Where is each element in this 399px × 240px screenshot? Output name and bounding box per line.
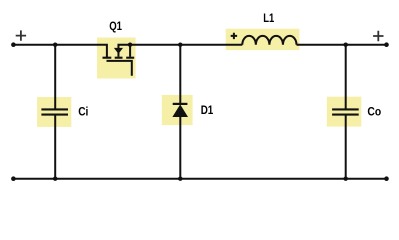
svg-text:Ci: Ci bbox=[78, 105, 88, 119]
L1 polarity plus bbox=[231, 33, 237, 39]
junction Ci bottom bbox=[53, 177, 57, 181]
svg-text:D1: D1 bbox=[201, 103, 214, 117]
capacitor Co bbox=[332, 45, 381, 179]
Q1 drain lead bbox=[129, 45, 131, 57]
D1 top lead bbox=[179, 45, 181, 104]
output plus polarity mark bbox=[373, 31, 383, 41]
junction D1 top bbox=[178, 43, 182, 47]
diode D1 highlight bbox=[162, 95, 193, 125]
wire bottom rail bbox=[13, 178, 386, 180]
junction Co top bbox=[344, 43, 348, 47]
D1 bottom lead bbox=[179, 117, 181, 179]
Co bottom lead bbox=[345, 115, 347, 178]
terminal dot input top bbox=[11, 42, 16, 47]
junction Ci top bbox=[53, 43, 57, 47]
svg-text:Q1: Q1 bbox=[109, 19, 122, 33]
diode D1 bbox=[172, 45, 213, 179]
wire top rail from Q1 drain junction to L1 coil bbox=[130, 44, 242, 46]
svg-text:Co: Co bbox=[367, 105, 381, 119]
D1 triangle bbox=[172, 104, 188, 117]
junction D1 bottom bbox=[178, 177, 182, 181]
Ci top lead bbox=[54, 45, 56, 109]
wire top rail from L1 coil to output terminal bbox=[297, 44, 387, 46]
D1 cathode bar bbox=[173, 103, 188, 105]
capacitor Ci highlight bbox=[37, 97, 71, 127]
junction Co bottom bbox=[344, 177, 348, 181]
terminal dot output top bbox=[384, 42, 389, 47]
Q1 gate bar and gate lead bbox=[107, 61, 132, 76]
Q1 middle contact bar bbox=[115, 57, 123, 59]
L1 coil bbox=[242, 36, 296, 45]
Ci bottom plate bbox=[41, 114, 68, 116]
Q1 body arrowhead bbox=[114, 48, 123, 54]
Q1 body link and arrow shaft bbox=[118, 45, 130, 57]
capacitor Co highlight bbox=[327, 97, 362, 127]
Co top plate bbox=[332, 108, 359, 110]
Q1 right contact bar bbox=[126, 57, 134, 59]
Q1 left contact bar bbox=[103, 57, 112, 59]
svg-text:L1: L1 bbox=[263, 11, 274, 25]
input plus polarity mark bbox=[16, 30, 26, 40]
inductor L1 highlight bbox=[226, 29, 300, 50]
Ci bottom lead bbox=[54, 115, 56, 178]
Ci top plate bbox=[41, 108, 68, 110]
capacitor Ci bbox=[41, 45, 88, 179]
terminal dot output bottom bbox=[384, 176, 389, 181]
junction Q1 drain bbox=[128, 43, 132, 47]
wire top rail left segment into Q1 source lead bbox=[13, 45, 107, 58]
terminal dot input bottom bbox=[11, 176, 16, 181]
Co top lead bbox=[345, 45, 347, 109]
transistor Q1 highlight bbox=[97, 38, 136, 79]
Co bottom plate bbox=[332, 114, 359, 116]
inductor L1 bbox=[231, 11, 297, 45]
transistor Q1 (P-MOSFET) bbox=[103, 19, 135, 76]
